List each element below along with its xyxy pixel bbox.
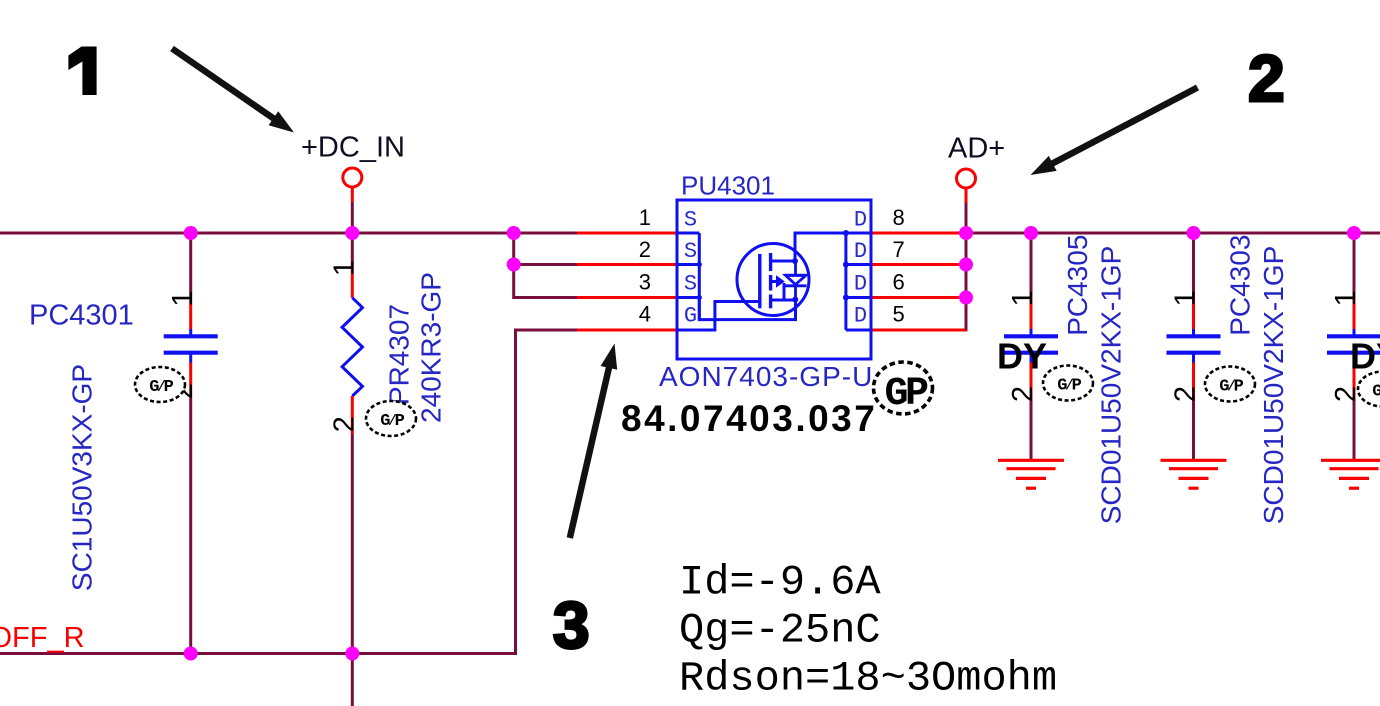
svg-text:3: 3 — [639, 270, 651, 295]
svg-text:S: S — [684, 239, 697, 264]
svg-text:4: 4 — [639, 302, 651, 327]
svg-text:SC1U50V3KX-GP: SC1U50V3KX-GP — [67, 364, 98, 591]
transistor PU4301: MOSFET IC body — [677, 200, 871, 359]
wire pin1 red segment — [577, 232, 678, 235]
svg-text:AON7403-GP-U: AON7403-GP-U — [659, 361, 873, 392]
svg-text:D: D — [854, 208, 867, 233]
wire +DC_IN lead maroon — [351, 202, 354, 233]
wire OFF_R bottom bus — [0, 330, 577, 654]
callout arrow 2 — [1031, 88, 1198, 176]
svg-text:S: S — [684, 208, 697, 233]
wire pin2 red segment — [577, 263, 678, 266]
svg-text:G⁄P: G⁄P — [1057, 377, 1081, 396]
svg-text:2: 2 — [1007, 386, 1039, 402]
svg-text:PC4301: PC4301 — [29, 300, 134, 332]
wire pin2 branch — [514, 233, 577, 265]
wire pin8 red segment — [870, 232, 966, 235]
wire drain internal path — [795, 233, 846, 261]
GP stamp large — [874, 362, 933, 417]
wire pin6 red segment — [870, 296, 966, 299]
svg-text:SCD01U50V2KX-1GP: SCD01U50V2KX-1GP — [1258, 246, 1289, 525]
svg-text:Qg=-25nC: Qg=-25nC — [679, 607, 881, 655]
svg-text:240KR3-GP: 240KR3-GP — [416, 272, 447, 423]
svg-text:D: D — [854, 239, 867, 264]
svg-text:G⁄P: G⁄P — [380, 412, 404, 431]
svg-text:8: 8 — [893, 205, 905, 230]
svg-text:G: G — [684, 304, 697, 329]
svg-text:6: 6 — [893, 270, 905, 295]
ground for PC4305 — [998, 460, 1064, 488]
svg-text:1: 1 — [639, 205, 651, 230]
transistor symbol circle — [737, 244, 809, 316]
svg-text:S: S — [684, 272, 697, 297]
wire gate internal path — [677, 302, 760, 331]
svg-text:G⁄P: G⁄P — [1372, 383, 1380, 402]
ground for PC4303 — [1161, 460, 1227, 488]
svg-text:1: 1 — [1170, 290, 1202, 306]
node +DC_IN open terminal — [343, 168, 362, 187]
svg-text:2: 2 — [329, 416, 361, 432]
svg-text:Rdson=18~3Omohm: Rdson=18~3Omohm — [679, 655, 1057, 703]
svg-text:DY: DY — [997, 336, 1047, 377]
svg-text:1: 1 — [167, 290, 199, 306]
svg-text:G⁄P: G⁄P — [149, 378, 173, 397]
svg-text:D: D — [854, 304, 867, 329]
wire pin7 red segment — [870, 263, 966, 266]
svg-text:PC4305: PC4305 — [1062, 235, 1093, 336]
node AD+ open terminal — [957, 169, 976, 188]
transistor drain stub — [771, 260, 795, 263]
svg-text:Id=-9.6A: Id=-9.6A — [679, 559, 881, 607]
svg-text:1: 1 — [329, 260, 361, 276]
svg-text:2: 2 — [639, 237, 651, 262]
svg-text:1: 1 — [1007, 290, 1039, 306]
svg-text:G⁄P: G⁄P — [1219, 378, 1243, 397]
svg-text:7: 7 — [893, 237, 905, 262]
svg-text:GP: GP — [884, 372, 928, 417]
ground for rightmost capacitor — [1321, 460, 1380, 488]
svg-text:PU4301: PU4301 — [681, 171, 775, 201]
svg-text:OFF_R: OFF_R — [0, 622, 85, 654]
GP stamp small PR4307 — [366, 401, 416, 436]
wire PR4307 stub below OFF_R bus — [351, 654, 354, 706]
svg-text:5: 5 — [893, 302, 905, 327]
wire source internal path — [699, 298, 795, 320]
svg-text:2: 2 — [1248, 41, 1285, 115]
GP stamp small PC4305 — [1043, 366, 1093, 401]
capacitor PC4305 — [1004, 233, 1058, 460]
wire pin4 red segment — [577, 329, 678, 332]
svg-text:+DC_IN: +DC_IN — [301, 132, 405, 164]
GP stamp small PC4303 — [1205, 367, 1255, 402]
svg-text:84.07403.037: 84.07403.037 — [621, 398, 877, 439]
pin box column right (D pins) — [846, 233, 871, 330]
svg-text:PC4303: PC4303 — [1225, 235, 1256, 336]
svg-text:DY: DY — [1350, 336, 1380, 377]
junction dots on +DC_IN bus — [184, 226, 1361, 305]
GP stamp small rightmost capacitor (clipped) — [1358, 372, 1380, 407]
pin box column left (S pins) — [677, 233, 699, 320]
capacitor PC4303 — [1167, 233, 1221, 460]
diode body diode — [784, 261, 807, 300]
wire cathode drop — [783, 283, 786, 300]
resistor PR4307 — [342, 233, 362, 654]
transistor source stub — [771, 299, 796, 302]
transistor channel bar segments — [769, 253, 772, 308]
callout arrow 3 — [570, 344, 617, 539]
callout arrow 1 — [172, 49, 294, 133]
capacitor PC4307 rightmost (clipped) — [1327, 233, 1380, 460]
transistor body stub with arrow — [771, 280, 776, 283]
callout numeral 1 — [68, 47, 96, 96]
wire main +DC_IN bus right part — [966, 232, 1380, 235]
svg-text:2: 2 — [1170, 386, 1202, 402]
wire AD+ vertical maroon to pin5 — [965, 203, 968, 330]
svg-text:AD+: AD+ — [948, 133, 1005, 165]
wire pin5 red segment — [870, 329, 968, 332]
node internal junction dots (blue) — [697, 230, 849, 303]
wire pin3 branch — [514, 265, 577, 298]
svg-text:1: 1 — [1330, 290, 1362, 306]
svg-text:SCD01U50V2KX-1GP: SCD01U50V2KX-1GP — [1096, 246, 1127, 525]
wire main +DC_IN bus left part — [0, 232, 578, 235]
capacitor PC4301 — [164, 233, 218, 654]
svg-text:3: 3 — [553, 588, 590, 662]
svg-text:PR4307: PR4307 — [384, 304, 415, 405]
wire AD+ lead red — [965, 188, 968, 203]
GP stamp small PC4301 — [135, 367, 185, 402]
wire pin3 red segment — [577, 296, 678, 299]
transistor gate bar — [758, 254, 761, 308]
svg-text:D: D — [854, 272, 867, 297]
wire +DC_IN lead red — [351, 187, 354, 202]
junction dots on OFF_R bus — [184, 647, 360, 661]
